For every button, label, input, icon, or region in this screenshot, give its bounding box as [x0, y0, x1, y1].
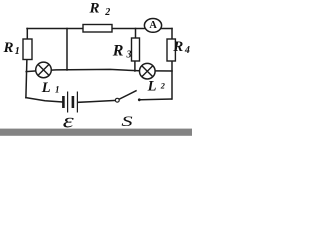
- svg-text:2: 2: [160, 82, 165, 91]
- svg-text:R: R: [172, 39, 183, 55]
- svg-text:1: 1: [15, 46, 20, 57]
- svg-text:4: 4: [184, 45, 190, 56]
- svg-text:1: 1: [55, 85, 60, 95]
- svg-text:R: R: [3, 40, 14, 56]
- svg-text:R: R: [112, 42, 124, 59]
- svg-text:R: R: [89, 1, 100, 17]
- svg-text:3: 3: [126, 50, 132, 61]
- svg-text:L: L: [41, 80, 51, 96]
- svg-text:L: L: [147, 79, 157, 95]
- svg-text:S: S: [121, 114, 133, 130]
- svg-text:A: A: [149, 20, 157, 31]
- svg-text:2: 2: [104, 7, 110, 18]
